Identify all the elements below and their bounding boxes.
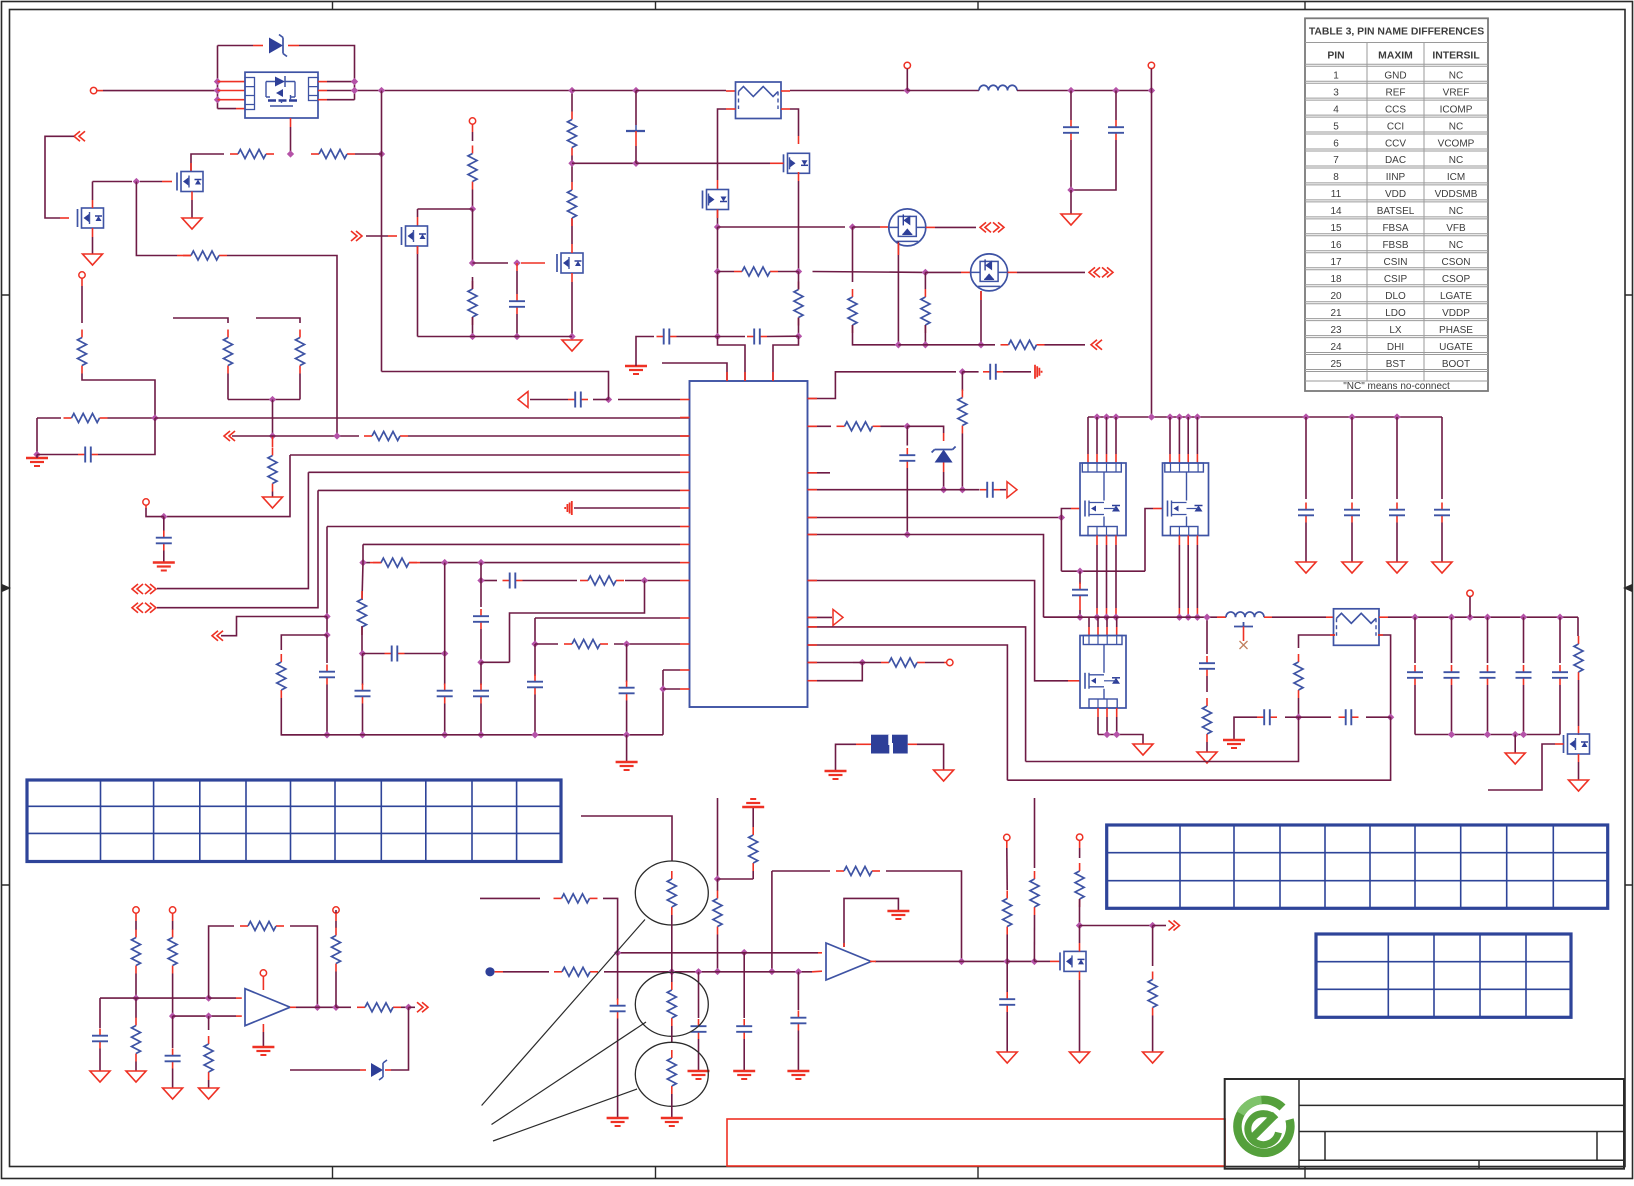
connector chevron y589 a	[132, 584, 143, 594]
ic pin line y580	[481, 580, 497, 582]
junction y516 x164	[160, 513, 167, 520]
wire pack out c	[327, 99, 355, 101]
junction obus x1524	[1520, 614, 1527, 621]
wire pack out a	[327, 81, 355, 83]
svg-text:25: 25	[1330, 359, 1342, 370]
wire q9 drain2	[1079, 926, 1081, 944]
junction x155 y418	[151, 414, 158, 421]
wire fuse left	[836, 744, 857, 771]
junction x572 y163	[568, 160, 575, 167]
connector pin u3 pwr	[260, 970, 266, 976]
wire pack1 top stub 1116	[1115, 417, 1117, 454]
wire feedback right	[290, 926, 317, 1007]
connector pin u3 b	[169, 907, 175, 913]
wire zener top loop	[218, 45, 254, 47]
resistor R21	[299, 330, 301, 338]
transistor Q7 (circled)	[971, 254, 1008, 291]
junction rail x535	[531, 731, 538, 738]
wire plus row	[100, 997, 209, 999]
resistor R14	[472, 146, 474, 154]
wire c26 down	[163, 551, 165, 563]
op-amp U3	[245, 989, 290, 1026]
wire earth626 stub	[626, 735, 628, 762]
wire c66 down	[797, 1031, 799, 1072]
junction x481 y662	[477, 659, 484, 666]
wire q6 out	[935, 226, 976, 228]
resistor R12	[311, 153, 319, 155]
svg-text:CSOP: CSOP	[1442, 274, 1471, 285]
wire u2 out	[875, 960, 962, 962]
resistor R56	[208, 1036, 210, 1044]
wire c22 to x717	[677, 336, 718, 338]
junction minus x744	[741, 949, 748, 956]
capacitor C43	[1441, 503, 1443, 510]
wire ocap3 lower	[1523, 685, 1525, 735]
wire u3 out	[296, 1006, 317, 1008]
wire zener leg	[391, 1007, 409, 1070]
connector pin x1007	[1004, 834, 1010, 840]
wire c65 down	[743, 1039, 745, 1071]
svg-text:ICOMP: ICOMP	[1440, 104, 1473, 115]
svg-text:LX: LX	[1389, 325, 1402, 336]
capacitor C41	[1351, 503, 1353, 510]
ground q8	[1569, 780, 1589, 791]
junction bus x381	[378, 87, 385, 94]
capacitor C24	[568, 399, 575, 401]
wire y580 jog	[510, 581, 645, 663]
earth ground up x753	[742, 806, 764, 808]
wire pack pin4	[218, 108, 237, 110]
wire rs1 right tap	[790, 109, 799, 136]
svg-text:8: 8	[1333, 172, 1339, 183]
wire main gnd rail	[281, 734, 663, 736]
resistor R31	[280, 654, 282, 662]
capacitor C30	[362, 684, 364, 691]
junction y562 x363	[359, 559, 366, 566]
ic pin line y472	[308, 471, 680, 473]
junction orail x1451	[1448, 731, 1455, 738]
wire r15 stub	[472, 277, 474, 289]
wire y662 seg	[853, 662, 862, 664]
svg-text:DLO: DLO	[1385, 291, 1406, 302]
junction rail x572	[568, 333, 575, 340]
svg-text:17: 17	[1330, 257, 1342, 268]
capacitor C50	[1414, 665, 1416, 672]
svg-text:TABLE 3, PIN NAME DIFFERENCES: TABLE 3, PIN NAME DIFFERENCES	[1309, 27, 1484, 38]
connector arrow y399	[518, 392, 528, 408]
connector pin vout	[1467, 590, 1473, 596]
wire orail gnd stub	[1514, 735, 1516, 754]
wire c20 up	[1070, 91, 1072, 121]
wire rc loop left	[36, 418, 38, 455]
junction x381 y154	[378, 150, 385, 157]
wire earth635 up	[636, 337, 654, 367]
junction x535 y644	[531, 640, 538, 647]
wire earth37 stub	[36, 455, 38, 459]
connector chevron y344	[1091, 340, 1102, 350]
earth ground u3	[252, 1046, 274, 1048]
svg-text:VCOMP: VCOMP	[1438, 138, 1475, 149]
wire r12 to x381	[355, 153, 382, 155]
wire r36 to pin	[925, 662, 944, 664]
junction bus2 p1 1116	[1112, 614, 1119, 621]
junction y580 x481	[477, 577, 484, 584]
wire pack1 top stub 1097	[1096, 417, 1098, 454]
wire ocap2 upper	[1487, 617, 1489, 663]
ground x136	[126, 1071, 146, 1082]
capacitor C66	[797, 1011, 799, 1018]
wire out to chev	[409, 1006, 416, 1008]
wire stub x772	[771, 871, 773, 972]
wire r25 bot	[798, 318, 800, 337]
logo (green)	[1237, 1100, 1290, 1153]
wire x962 resistor leg	[961, 372, 963, 391]
wire q6 source	[897, 242, 899, 345]
ic pin line y455	[290, 454, 680, 456]
junction x327 y635	[323, 631, 330, 638]
ground under Q1	[182, 218, 202, 229]
wire r15 to rail	[472, 317, 474, 337]
ic pin line r398	[808, 372, 957, 399]
wire q0 source	[92, 237, 94, 254]
connector chevron y589 b	[145, 584, 156, 594]
wire y399 left seg	[530, 399, 568, 401]
junction c20 c21	[1067, 186, 1074, 193]
svg-text:BST: BST	[1386, 359, 1405, 370]
wire y272 to q7	[925, 271, 961, 273]
transistor Q4	[788, 153, 810, 173]
svg-text:UGATE: UGATE	[1439, 342, 1473, 353]
capacitor C32	[480, 684, 482, 691]
wire ocap1 lower	[1451, 685, 1453, 735]
wire res loop 281 bot	[281, 698, 327, 735]
resistor R45	[1152, 972, 1154, 980]
wire x444 653-685	[444, 654, 446, 686]
connector chevron >>DRV	[351, 231, 362, 241]
svg-text:24: 24	[1330, 342, 1342, 353]
wire y271 a	[718, 271, 735, 273]
resistor R18	[81, 330, 83, 338]
junction x37 y454	[33, 451, 40, 458]
wire pin1007 down	[1006, 848, 1008, 890]
wire pack3 top stub 1107	[1106, 617, 1108, 627]
junction bus2 p2 1197.4	[1194, 614, 1201, 621]
current sense circle CT3	[635, 1042, 708, 1106]
connector chevron vout2	[1169, 921, 1180, 931]
wire r41 top	[752, 807, 754, 827]
wire capbank3 upper	[1441, 417, 1443, 499]
wire r26 bot	[853, 325, 899, 345]
junction x717 y227	[714, 223, 721, 230]
wire y227 row	[718, 226, 846, 228]
svg-text:20: 20	[1330, 291, 1342, 302]
resistor R47	[1034, 871, 1036, 879]
wire ocap rail	[1415, 734, 1560, 736]
ic pin line y399	[618, 399, 680, 401]
no-connect X mark	[1240, 641, 1248, 649]
svg-text:4: 4	[1333, 104, 1339, 115]
wire minus line b	[604, 971, 812, 973]
wire r22 gnd stub	[272, 492, 274, 498]
wire ocap0 upper	[1414, 617, 1416, 663]
wire ocap4 lower	[1559, 685, 1561, 735]
wire y489 seg2	[944, 489, 963, 491]
junction pack in a	[214, 78, 221, 85]
test point TP2	[485, 967, 494, 976]
wire q2 source	[571, 282, 573, 337]
junction y372 x962	[959, 368, 966, 375]
border arrow right	[1623, 584, 1632, 592]
ground output rail	[1505, 753, 1525, 764]
wire chg loop	[45, 136, 74, 218]
svg-text:CSIN: CSIN	[1384, 257, 1408, 268]
wire pack2 top stub 1179.4	[1178, 417, 1180, 454]
nc symbol pin y508	[565, 501, 572, 515]
wire pack1 bot stub 1097	[1096, 545, 1098, 608]
inductor L2 center tap	[1234, 622, 1253, 627]
earth ground x635	[625, 365, 647, 367]
connector pin x1079	[1076, 834, 1082, 840]
transistor Q5	[707, 190, 729, 210]
wire x698 col	[698, 972, 700, 1018]
junction x717 y336	[714, 333, 721, 340]
wire y717 mid	[1299, 716, 1332, 718]
wire c69 down	[172, 1069, 174, 1089]
wire r17 r16 mid	[571, 156, 573, 183]
wire mos417 source	[417, 246, 419, 337]
junction out x317	[314, 1004, 321, 1011]
transistor Q2	[561, 253, 583, 273]
svg-text:BOOT: BOOT	[1442, 359, 1470, 370]
junction bus2 p1 1106.5	[1103, 614, 1110, 621]
capacitor C53	[1523, 665, 1525, 672]
nc symbol y372	[1035, 365, 1042, 379]
wire c30 down	[362, 704, 364, 735]
junction minus x671	[668, 968, 675, 975]
wire x444 562-653	[444, 563, 446, 654]
wire r21 bottom	[299, 374, 301, 400]
capacitor C28	[385, 653, 392, 655]
mosfet pack Q10 box	[245, 72, 318, 118]
wire c31 down	[480, 629, 482, 662]
connector chevron q7 b	[1102, 267, 1113, 277]
wire pin pigtail	[146, 508, 164, 517]
junction bus2 p2 1179.4	[1176, 614, 1183, 621]
wire q8 gate wire	[1488, 744, 1555, 790]
svg-text:VDDP: VDDP	[1442, 308, 1470, 319]
svg-text:REF: REF	[1386, 87, 1406, 98]
wire y898 line	[480, 897, 540, 899]
wire y436 mid	[273, 435, 360, 437]
svg-text:NC: NC	[1449, 70, 1463, 81]
svg-text:ICM: ICM	[1447, 172, 1465, 183]
wire tp down	[472, 132, 474, 141]
svg-text:PHASE: PHASE	[1439, 325, 1473, 336]
capacitor C65	[743, 1019, 745, 1026]
wire r27 top	[924, 272, 926, 289]
wire pack3 bot stub 1098	[1097, 717, 1099, 735]
svg-text:INTERSIL: INTERSIL	[1432, 51, 1480, 62]
capacitor C62	[1339, 716, 1346, 718]
wire x907 down	[906, 426, 908, 445]
junction orail x1515	[1512, 731, 1519, 738]
wire lbus 1043-1226	[1044, 616, 1227, 618]
wire y644 right	[614, 643, 680, 645]
wire capbank0 upper	[1305, 417, 1307, 499]
wire c20 down	[1070, 140, 1072, 190]
wire zener loop right	[299, 46, 355, 100]
svg-text:IINP: IINP	[1386, 172, 1406, 183]
mosfet pack Q11	[1080, 463, 1126, 536]
junction x852 y227	[849, 223, 856, 230]
wire pack1 bot stub 1116	[1115, 545, 1117, 608]
connector chevron q7 a	[1089, 267, 1100, 277]
junction p3rail 1116	[1113, 731, 1120, 738]
junction r11 r12	[287, 150, 294, 157]
junction bus x572	[568, 87, 575, 94]
svg-text:NC: NC	[1449, 240, 1463, 251]
current sense circle CT2	[635, 972, 708, 1036]
junction out x336	[332, 1004, 339, 1011]
junction obus x1560	[1556, 614, 1563, 621]
earth ground x835	[825, 770, 847, 772]
wire gate row 263	[473, 262, 509, 264]
wire pin1151 stub	[1150, 69, 1152, 91]
wire bus 907-979	[907, 90, 979, 92]
wire q5 source	[717, 210, 719, 228]
svg-text:CSON: CSON	[1442, 257, 1471, 268]
junction x717 y971	[714, 968, 721, 975]
ground x172	[163, 1088, 183, 1099]
wire r50 bot	[671, 1026, 673, 1042]
junction u3 minus x172	[169, 1012, 176, 1019]
wire y344 to chev	[1045, 344, 1086, 346]
wire c21 down	[1071, 140, 1116, 190]
junction bus2 x1207	[1203, 614, 1210, 621]
wire u3 out3	[336, 1006, 351, 1008]
resistor R51	[671, 1050, 673, 1058]
junction rail x362	[359, 731, 366, 738]
connector chevron y607 a	[132, 603, 143, 613]
wire stub header b	[256, 318, 300, 323]
capacitor C60	[1206, 656, 1208, 663]
resistor R41	[752, 827, 754, 835]
junction obus x1415	[1411, 614, 1418, 621]
wire x481 562-580	[480, 563, 482, 581]
ground under Q0	[83, 254, 103, 265]
pointer line d1	[482, 920, 645, 1106]
junction vbus6	[1185, 413, 1192, 420]
connector TP y502	[143, 499, 149, 505]
junction x798 y271	[795, 268, 802, 275]
battery table B	[1107, 825, 1608, 908]
wire x852 down	[852, 227, 854, 282]
wire lbus coil-sense	[1272, 616, 1326, 618]
wire u2 out3	[1007, 960, 1034, 962]
wire x481 jog	[481, 661, 510, 663]
wire minus row	[173, 1015, 236, 1017]
transistor Q8	[1568, 734, 1590, 754]
wire c67 down	[617, 1019, 619, 1119]
wire bus 636-726	[636, 90, 726, 92]
wire pin490 hook	[157, 490, 318, 607]
wire x336 fb2	[335, 921, 337, 928]
wire pin472 hook	[157, 472, 308, 588]
wire stub x717 bottom	[717, 798, 719, 879]
capacitor C51	[1451, 665, 1453, 672]
wire y580 mid	[523, 580, 578, 582]
connector chevron CHG<<	[74, 131, 85, 141]
wire y489 seg3	[962, 489, 979, 491]
wire x617 down	[617, 953, 619, 1000]
wire pin455 hook	[167, 455, 290, 517]
svg-text:3: 3	[1333, 87, 1339, 98]
resistor R57	[335, 928, 337, 936]
note box (red)	[727, 1119, 1225, 1166]
resistor R52	[135, 930, 137, 938]
wire plus line	[618, 952, 818, 954]
junction x362 y653	[359, 650, 366, 657]
wire c34 down	[626, 701, 628, 735]
transistor Q6 (circled)	[889, 209, 926, 246]
junction u3 minus x208	[205, 1012, 212, 1019]
resistor R48	[554, 897, 562, 899]
resistor R54	[135, 1018, 137, 1026]
junction y344 x981	[977, 341, 984, 348]
pack Q10 left pin block	[245, 78, 255, 110]
junction rail x481	[477, 731, 484, 738]
pin name table	[1305, 18, 1488, 391]
inductor L2	[1226, 612, 1264, 617]
capacitor C42	[1396, 503, 1398, 510]
ground caps c20	[1061, 214, 1081, 225]
svg-text:CSIP: CSIP	[1384, 274, 1408, 285]
earth ground x617	[607, 1117, 629, 1119]
junction orail x1524	[1520, 731, 1527, 738]
junction x444 y653	[441, 650, 448, 657]
wire ic top pin x727	[662, 363, 727, 381]
wire r58 to dot	[401, 1006, 409, 1008]
junction bus c1b	[1112, 87, 1119, 94]
wire q1 drain up	[191, 154, 224, 172]
junction orail x1487	[1484, 731, 1491, 738]
svg-text:GND: GND	[1384, 70, 1406, 81]
wire r14 down	[472, 190, 474, 210]
junction x962 y489	[959, 486, 966, 493]
wire x172 cap leg	[172, 1016, 174, 1048]
capacitor C29	[444, 684, 446, 691]
wire r17 up	[571, 91, 573, 112]
resistor R26	[852, 289, 854, 297]
ground capbank1	[1342, 562, 1362, 573]
wire x472 209 to 263	[472, 209, 474, 263]
junction rail x517	[513, 333, 520, 340]
wire bus 1017-1151	[1017, 90, 1152, 92]
title block	[1225, 1079, 1624, 1169]
wire to q1 gate	[140, 181, 162, 183]
wire tap to gate row	[635, 146, 637, 163]
ic U1 (battery charger controller)	[690, 381, 808, 707]
junction pack out a	[351, 78, 358, 85]
wire pin vout stub	[1469, 597, 1471, 618]
junction pack out b	[351, 87, 358, 94]
wire x663 670-735	[662, 670, 664, 735]
pack Q10 right pin block	[309, 78, 319, 101]
wire pin907 stub	[906, 69, 908, 91]
ic pin line r472	[808, 472, 831, 474]
resistor R39	[1298, 654, 1300, 662]
ground rail x572	[562, 340, 582, 351]
